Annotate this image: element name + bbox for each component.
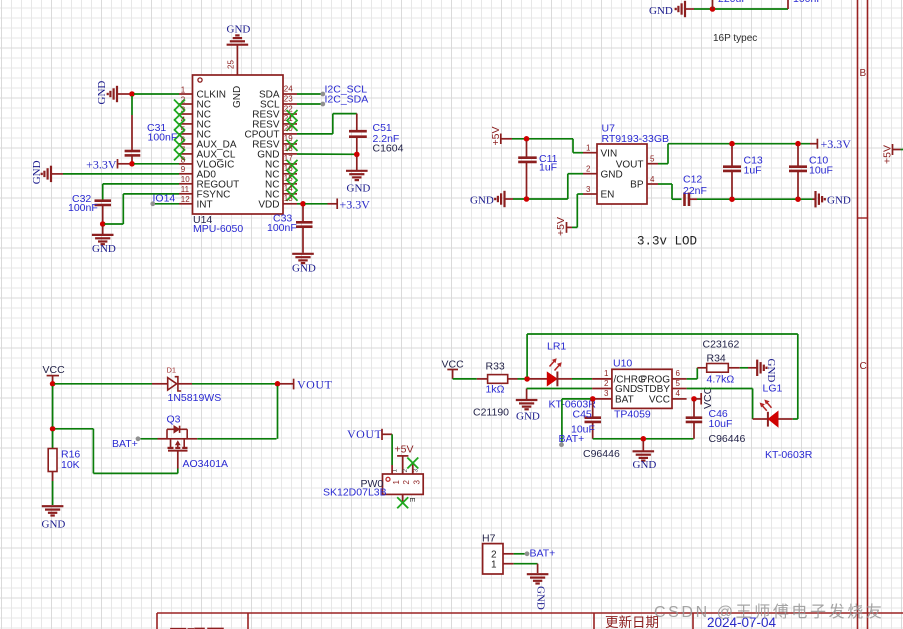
- resistor R16: [48, 431, 57, 505]
- Q3 reference: [167, 414, 181, 426]
- title block divider x594: [593, 613, 595, 629]
- LED LR1: [530, 358, 573, 386]
- capacitor C32: [95, 201, 112, 224]
- net port BAT+ (charger): [559, 433, 585, 447]
- pin 13 (VDD) of U14: [258, 194, 297, 210]
- pin 2 (GND) of U7: [583, 165, 623, 181]
- junction R16 top: [50, 426, 56, 432]
- svg-text:GND: GND: [601, 169, 623, 180]
- pin 11 (FSYNC) of U14: [179, 185, 230, 200]
- D1 value 1N5819WS: [168, 392, 222, 404]
- junction C13 top: [729, 141, 735, 147]
- C45 reference: [573, 408, 592, 420]
- wire top rail to LG1: [527, 334, 798, 419]
- text 3.3v LOD: [637, 235, 697, 249]
- power flag VCC (top left): [43, 364, 66, 382]
- svg-text:1: 1: [181, 85, 186, 94]
- PW0 value SK12D07L3B: [323, 487, 387, 499]
- power flag +3.3V (LDO out): [810, 137, 851, 151]
- svg-text:GND: GND: [765, 359, 777, 383]
- C32 value 100nF: [68, 202, 98, 214]
- svg-text:LR1: LR1: [547, 341, 566, 353]
- title text 原理图 (clipped): [168, 626, 225, 629]
- wire EN to +5V: [572, 194, 583, 227]
- capacitor C10: [789, 146, 807, 197]
- ground flag GND (AD0 row): [31, 160, 63, 184]
- svg-text:11: 11: [181, 185, 190, 194]
- svg-text:220uF: 220uF: [718, 0, 748, 5]
- svg-text:GND: GND: [633, 459, 657, 471]
- svg-text:3: 3: [413, 480, 422, 485]
- C51 reference: [373, 122, 392, 134]
- wire C31 top stem: [131, 96, 133, 150]
- pin 4 (BP) of U7: [630, 175, 658, 191]
- LED LG1 (mirrored): [753, 400, 798, 427]
- IC U14 body: [193, 75, 284, 214]
- no-connect X on pin 7: [174, 149, 185, 160]
- svg-text:GND: GND: [232, 86, 243, 108]
- pin 3 (BAT) of U10: [595, 389, 634, 405]
- wire pin5 to LG1: [687, 389, 753, 420]
- sheet zone letter B: [860, 68, 867, 79]
- no-connect X on pin 22: [287, 110, 298, 121]
- svg-text:Q3: Q3: [167, 414, 181, 426]
- sheet border zone tick: [858, 217, 868, 219]
- H7 reference: [482, 533, 496, 545]
- no-connect X on pin 6: [174, 139, 185, 150]
- capacitor C31: [125, 151, 141, 164]
- svg-text:5: 5: [650, 155, 655, 164]
- junction C10 bottom: [795, 196, 801, 202]
- C51 value 2.2nF: [373, 133, 400, 145]
- LG1 reference: [763, 383, 783, 395]
- svg-text:8: 8: [181, 155, 186, 164]
- junction C10 top: [795, 141, 801, 147]
- R33 value 1kΩ: [486, 384, 505, 396]
- junction bottom rail GND: [641, 436, 647, 442]
- svg-text:1: 1: [586, 144, 591, 153]
- svg-text:R34: R34: [707, 353, 726, 365]
- svg-text:100nF: 100nF: [267, 222, 297, 234]
- wire BAT to BAT+ port: [562, 399, 591, 442]
- svg-text:GND: GND: [31, 160, 43, 184]
- svg-text:100nF: 100nF: [793, 0, 823, 5]
- svg-text:EN: EN: [601, 190, 615, 201]
- svg-text:2: 2: [604, 379, 609, 388]
- wire CPOUT to C51: [297, 114, 357, 134]
- C46 part C96446: [709, 433, 746, 445]
- C11 value 1uF: [539, 162, 557, 174]
- no-connect X on pin 16: [287, 170, 298, 181]
- capacitor C51: [349, 114, 367, 155]
- pin 4 (NC) of U14: [179, 115, 211, 130]
- C10 reference: [809, 155, 828, 167]
- svg-text:1uF: 1uF: [539, 162, 557, 174]
- svg-text:18: 18: [284, 144, 293, 153]
- capacitor C13: [723, 146, 741, 197]
- wire REGOUT row: [103, 184, 179, 200]
- junction C13 bottom: [729, 196, 735, 202]
- svg-text:BAT: BAT: [615, 395, 634, 406]
- H7 pin 1: [491, 559, 514, 570]
- wire GND output rail: [697, 198, 813, 200]
- ground GND (top-right flag): [649, 1, 694, 17]
- svg-text:+3.3V: +3.3V: [340, 197, 371, 211]
- pin 2 (GND) of U10: [592, 379, 637, 395]
- switch pin top labels: [392, 469, 420, 473]
- svg-text:10: 10: [181, 175, 190, 184]
- pin 2 (NC) of U14: [179, 95, 211, 110]
- capacitor C45: [585, 401, 602, 439]
- R34 reference: [707, 353, 726, 365]
- wire VOUT to switch pin1: [391, 434, 393, 465]
- ground GND (U10 pin2): [516, 389, 540, 423]
- resistor R34: [697, 364, 748, 373]
- pin 3 (NC) of U14: [179, 105, 211, 120]
- svg-text:D1: D1: [167, 366, 177, 375]
- junction VCC / D1 / R16: [50, 381, 56, 387]
- C45 part C96446: [583, 448, 620, 460]
- svg-text:4: 4: [650, 175, 655, 184]
- ground GND (charger bottom): [633, 441, 657, 471]
- pin 1 (CLKIN) of U14: [179, 85, 226, 100]
- IC U7 body: [597, 144, 647, 204]
- wire SDA row: [297, 93, 321, 95]
- connector H7 body: [483, 544, 503, 574]
- svg-text:GND: GND: [649, 5, 673, 17]
- no-connect X on pin 2: [174, 100, 185, 111]
- pin 25 (GND) of U14: [227, 46, 244, 109]
- C33 reference: [273, 213, 292, 225]
- pin 21 (RESV) of U14: [252, 114, 297, 130]
- svg-text:16P typec: 16P typec: [713, 33, 757, 44]
- pin 9 (AD0) of U14: [179, 165, 216, 180]
- svg-text:10K: 10K: [61, 459, 80, 471]
- Q3 value AO3401A: [183, 458, 229, 470]
- svg-text:BAT+: BAT+: [530, 548, 556, 560]
- pin 3 (EN) of U7: [583, 185, 614, 201]
- svg-text:13: 13: [284, 194, 293, 203]
- pin 20 (CPOUT) of U14: [245, 124, 298, 140]
- junction at CLKIN / C31: [129, 91, 135, 97]
- svg-text:I2C_SDA: I2C_SDA: [325, 94, 369, 106]
- svg-text:2: 2: [586, 165, 591, 174]
- ground flag GND (LDO right): [813, 191, 851, 207]
- svg-text:GND: GND: [92, 243, 116, 255]
- value 100nF (clipped): [793, 0, 823, 5]
- pin 17 (NC) of U14: [265, 154, 297, 170]
- svg-text:INT: INT: [197, 199, 213, 210]
- wire pin6 to R34: [687, 368, 698, 379]
- R34 value 4.7kΩ: [707, 374, 735, 386]
- pin 1 (VIN) of U7: [583, 144, 617, 160]
- svg-text:+5V: +5V: [395, 444, 414, 456]
- C46 value 10uF: [709, 418, 733, 430]
- pin 19 (RESV) of U14: [252, 134, 297, 150]
- R34 part C23162: [703, 339, 740, 351]
- sheet zone letter C: [860, 361, 867, 372]
- C45 value 10uF: [571, 423, 595, 435]
- pin 1 (/CHRG) of U10: [592, 369, 646, 385]
- C33 value 100nF: [267, 222, 297, 234]
- power flag +5V (right border, rotated): [882, 144, 903, 164]
- R16 value 10K: [61, 459, 80, 471]
- switch pin 1: [392, 465, 401, 485]
- svg-text:C96446: C96446: [583, 448, 620, 460]
- wire Q3 drain to VOUT net: [197, 438, 276, 440]
- switch pin 2: [402, 480, 411, 485]
- ground GND (below R16): [42, 506, 66, 530]
- switch PW0 SK12D07L3B body: [383, 474, 424, 494]
- resistor R33: [477, 375, 525, 384]
- U14 value MPU-6050: [193, 223, 243, 235]
- svg-text:VOUT: VOUT: [616, 159, 644, 170]
- wire GND rail to pin2: [513, 174, 583, 199]
- svg-text:100nF: 100nF: [68, 202, 98, 214]
- junction C32 / FSYNC / GND: [100, 221, 106, 227]
- ground GND (below H7, rotated text): [527, 574, 549, 610]
- IC U10 body: [612, 369, 672, 408]
- power flag VOUT: [280, 378, 333, 392]
- wire pin2 row: [527, 388, 593, 390]
- wire top-right horizontal: [694, 8, 788, 10]
- junction C11 bottom: [524, 196, 530, 202]
- svg-text:GND: GND: [227, 24, 251, 36]
- svg-text:VDD: VDD: [258, 199, 279, 210]
- svg-text:R33: R33: [486, 361, 505, 373]
- U14 reference label: [193, 214, 212, 226]
- svg-text:1: 1: [491, 559, 497, 570]
- svg-text:更新日期: 更新日期: [605, 615, 659, 629]
- svg-text:9: 9: [181, 165, 186, 174]
- wire H7 pin1 to GND: [514, 564, 538, 573]
- C12 value 22nF: [683, 185, 707, 197]
- wire bottom rail C45-C46: [593, 438, 694, 440]
- svg-text:3: 3: [604, 389, 609, 398]
- pin 22 (RESV) of U14: [252, 104, 297, 120]
- power flag VOUT (switch): [347, 427, 392, 441]
- svg-text:4.7kΩ: 4.7kΩ: [707, 374, 735, 386]
- text 16P typec: [713, 33, 757, 44]
- svg-text:IO14: IO14: [153, 193, 176, 205]
- no-connect X on pin 15: [287, 180, 298, 191]
- C31 reference: [147, 122, 166, 134]
- svg-text:C45: C45: [573, 408, 592, 420]
- svg-text:B: B: [860, 68, 867, 79]
- svg-text:LG1: LG1: [763, 383, 783, 395]
- junction VDD / C33: [300, 201, 306, 207]
- svg-text:10uF: 10uF: [809, 165, 833, 177]
- junction +3.3V / C31 / VLOGIC: [129, 161, 135, 167]
- title date 2024-07-04: [707, 615, 777, 629]
- net port BAT+ (H7): [525, 548, 556, 560]
- pin 4 (VCC) of U10: [649, 389, 687, 405]
- svg-text:4: 4: [676, 389, 681, 398]
- svg-text:BAT+: BAT+: [112, 438, 138, 450]
- svg-text:GND: GND: [96, 81, 108, 105]
- title label 更新日期: [605, 615, 659, 629]
- wire INT row: [155, 203, 179, 205]
- wire AD0 row: [63, 173, 179, 175]
- svg-text:1kΩ: 1kΩ: [486, 384, 505, 396]
- C31 value 100nF: [148, 132, 178, 144]
- net port I2C_SDA: [320, 94, 368, 107]
- svg-text:12: 12: [181, 195, 190, 204]
- svg-text:23: 23: [284, 94, 293, 103]
- U10 reference: [613, 358, 632, 370]
- svg-text:E: E: [408, 498, 415, 503]
- svg-text:C1604: C1604: [373, 143, 404, 155]
- ground flag GND (CLKIN row): [96, 81, 130, 105]
- LR1 reference: [547, 341, 566, 353]
- junction C51 / GND row: [354, 152, 360, 158]
- net port IO14: [150, 193, 175, 207]
- wire +5V rail to VIN: [512, 139, 583, 153]
- LG1 value KT-0603R: [765, 449, 813, 461]
- svg-text:GND: GND: [470, 195, 494, 207]
- power flag +5V (switch): [395, 444, 414, 474]
- svg-text:10uF: 10uF: [571, 423, 595, 435]
- pin 14 (NC) of U14: [265, 184, 297, 200]
- wire VDD to +3.3V: [305, 203, 328, 205]
- D1 reference: [167, 366, 177, 375]
- svg-text:GND: GND: [615, 384, 637, 395]
- sheet border outer line: [867, 0, 869, 629]
- no-connect X on pin 19: [287, 140, 298, 151]
- wire VOUT junction down to Q3: [277, 386, 279, 439]
- svg-text:2: 2: [402, 480, 411, 485]
- capacitor C46: [686, 401, 703, 439]
- wire C32 to FSYNC: [105, 194, 180, 224]
- net port I2C_SCL: [320, 84, 367, 97]
- R33 reference: [486, 361, 505, 373]
- R16 reference: [61, 449, 80, 461]
- svg-text:SK12D07L3B: SK12D07L3B: [323, 487, 387, 499]
- svg-text:VOUT: VOUT: [347, 427, 382, 441]
- transistor Q3 AO3401A: [158, 426, 198, 469]
- no-connect X on pin 17: [287, 160, 298, 171]
- net port BAT+ (Q3): [112, 436, 140, 450]
- svg-text:VCC: VCC: [649, 395, 670, 406]
- svg-text:22nF: 22nF: [683, 185, 707, 197]
- svg-text:VCC: VCC: [43, 364, 66, 376]
- svg-text:1N5819WS: 1N5819WS: [168, 392, 222, 404]
- wire VCC junction down to R16: [52, 386, 54, 427]
- svg-text:GND: GND: [347, 183, 371, 195]
- svg-text:1: 1: [604, 369, 609, 378]
- svg-text:1uF: 1uF: [744, 165, 762, 177]
- wire VDD row: [297, 203, 301, 205]
- U10 value TP4059: [614, 408, 651, 420]
- pin 10 (REGOUT) of U14: [179, 175, 239, 190]
- wire H7 pin2 to BAT+: [514, 553, 525, 555]
- pin 6 (AUX_DA) of U14: [179, 135, 237, 150]
- svg-text:C21190: C21190: [473, 407, 509, 419]
- junction R33 / LR1 / top rail: [524, 376, 530, 382]
- C13 reference: [744, 155, 763, 167]
- wire CLKIN row: [134, 93, 179, 95]
- power flag +5V (EN, rotated): [555, 217, 572, 236]
- power flag VCC (pin4, rotated): [696, 386, 714, 409]
- pin 24 (SDA) of U14: [259, 84, 297, 100]
- no-connect X on pin 3: [174, 110, 185, 121]
- svg-text:20: 20: [284, 124, 293, 133]
- svg-text:H7: H7: [482, 533, 496, 545]
- power flag +3.3V (VDD): [328, 197, 371, 211]
- C32 reference: [72, 193, 91, 205]
- switch pin 3: [413, 464, 422, 485]
- svg-text:1: 1: [392, 480, 401, 485]
- svg-text:MPU-6050: MPU-6050: [193, 223, 243, 235]
- wire GND row 18: [297, 153, 357, 155]
- title block divider x693: [692, 613, 694, 629]
- C12 reference: [683, 174, 702, 186]
- pin 23 (SCL) of U14: [260, 94, 297, 110]
- value 220uF (clipped): [718, 0, 748, 5]
- svg-text:3: 3: [586, 185, 591, 194]
- svg-text:GND: GND: [516, 411, 540, 423]
- capacitor C12 (horizontal): [685, 193, 698, 207]
- C51 part C1604: [373, 143, 404, 155]
- capacitor C11: [518, 141, 537, 199]
- svg-text:C12: C12: [683, 174, 702, 186]
- ground GND (below C32): [92, 226, 116, 255]
- power flag +5V (LDO input, rotated): [490, 127, 512, 146]
- capacitor pin (cut off, left): [712, 0, 714, 9]
- pin 16 (NC) of U14: [265, 164, 297, 180]
- title block divider x248: [247, 613, 249, 629]
- no-connect X on switch pin 3: [407, 458, 418, 469]
- pin 5 (NC) of U14: [179, 125, 211, 140]
- junction D1 / VOUT / Q3: [275, 381, 281, 387]
- svg-text:100nF: 100nF: [148, 132, 178, 144]
- svg-text:STDBY: STDBY: [637, 384, 671, 395]
- svg-text:+3.3V: +3.3V: [821, 137, 852, 151]
- svg-text:VIN: VIN: [601, 148, 618, 159]
- svg-text:6: 6: [676, 369, 681, 378]
- switch pin E (bottom): [403, 494, 415, 503]
- svg-text:24: 24: [284, 84, 293, 93]
- wire VCC to R33: [453, 378, 477, 380]
- svg-text:GND: GND: [42, 519, 66, 531]
- svg-text:+5V: +5V: [555, 217, 567, 236]
- LR1 value KT-0603R: [549, 399, 597, 411]
- svg-text:C: C: [860, 361, 867, 372]
- ground GND (below C33): [292, 254, 316, 275]
- no-connect X on pin 4: [174, 119, 185, 130]
- svg-text:5: 5: [676, 379, 681, 388]
- power flag +3.3V (VLOGIC): [86, 157, 129, 171]
- wire LR1 to U10 pin1: [572, 378, 592, 380]
- H7 pin 2: [491, 550, 514, 561]
- PW0 reference: [361, 478, 384, 490]
- svg-text:U10: U10: [613, 358, 632, 370]
- pin 5 (VOUT) of U7: [616, 155, 658, 171]
- pin 6 (PROG) of U10: [641, 369, 687, 385]
- pin 7 (AUX_CL) of U14: [179, 145, 236, 160]
- pin 18 (GND) of U14: [257, 144, 297, 160]
- svg-text:+3.3V: +3.3V: [86, 157, 117, 171]
- ground flag GND (LDO left): [470, 191, 513, 207]
- junction top-right: [710, 6, 716, 12]
- svg-text:C96446: C96446: [709, 433, 746, 445]
- svg-text:BP: BP: [630, 180, 644, 191]
- no-connect X on pin 5: [174, 129, 185, 140]
- wire VOUT to +3.3V rail: [658, 144, 810, 164]
- svg-text:KT-0603R: KT-0603R: [765, 449, 813, 461]
- junction C11 top: [524, 136, 530, 142]
- C46 reference: [709, 408, 728, 420]
